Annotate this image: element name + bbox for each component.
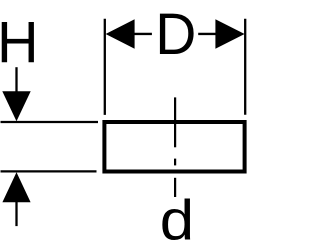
center line: dot: [174, 159, 176, 166]
dimension line H: lower extension line: [1, 170, 97, 172]
dimension line H: upper extension line: [1, 121, 99, 123]
center line: long dash: [174, 97, 176, 147]
dimension D: right arrowhead: [215, 19, 244, 49]
svg-text:D: D: [155, 2, 196, 67]
dimension D: right extension line: [244, 19, 246, 115]
dimension D: left extension line: [104, 19, 106, 115]
svg-text:d: d: [160, 188, 194, 250]
dimension D: left line segment: [134, 33, 152, 35]
arrow H down: head: [2, 91, 30, 121]
svg-text:H: H: [0, 9, 39, 75]
part outline rectangle: [104, 122, 244, 172]
center line: lower dash: [174, 178, 176, 197]
arrow H down: leader: [15, 67, 17, 92]
arrow H up: leader: [15, 202, 17, 227]
dimension D: right line segment: [198, 33, 216, 35]
dimension D: left arrowhead: [106, 19, 135, 49]
arrow H up: head: [2, 172, 30, 202]
